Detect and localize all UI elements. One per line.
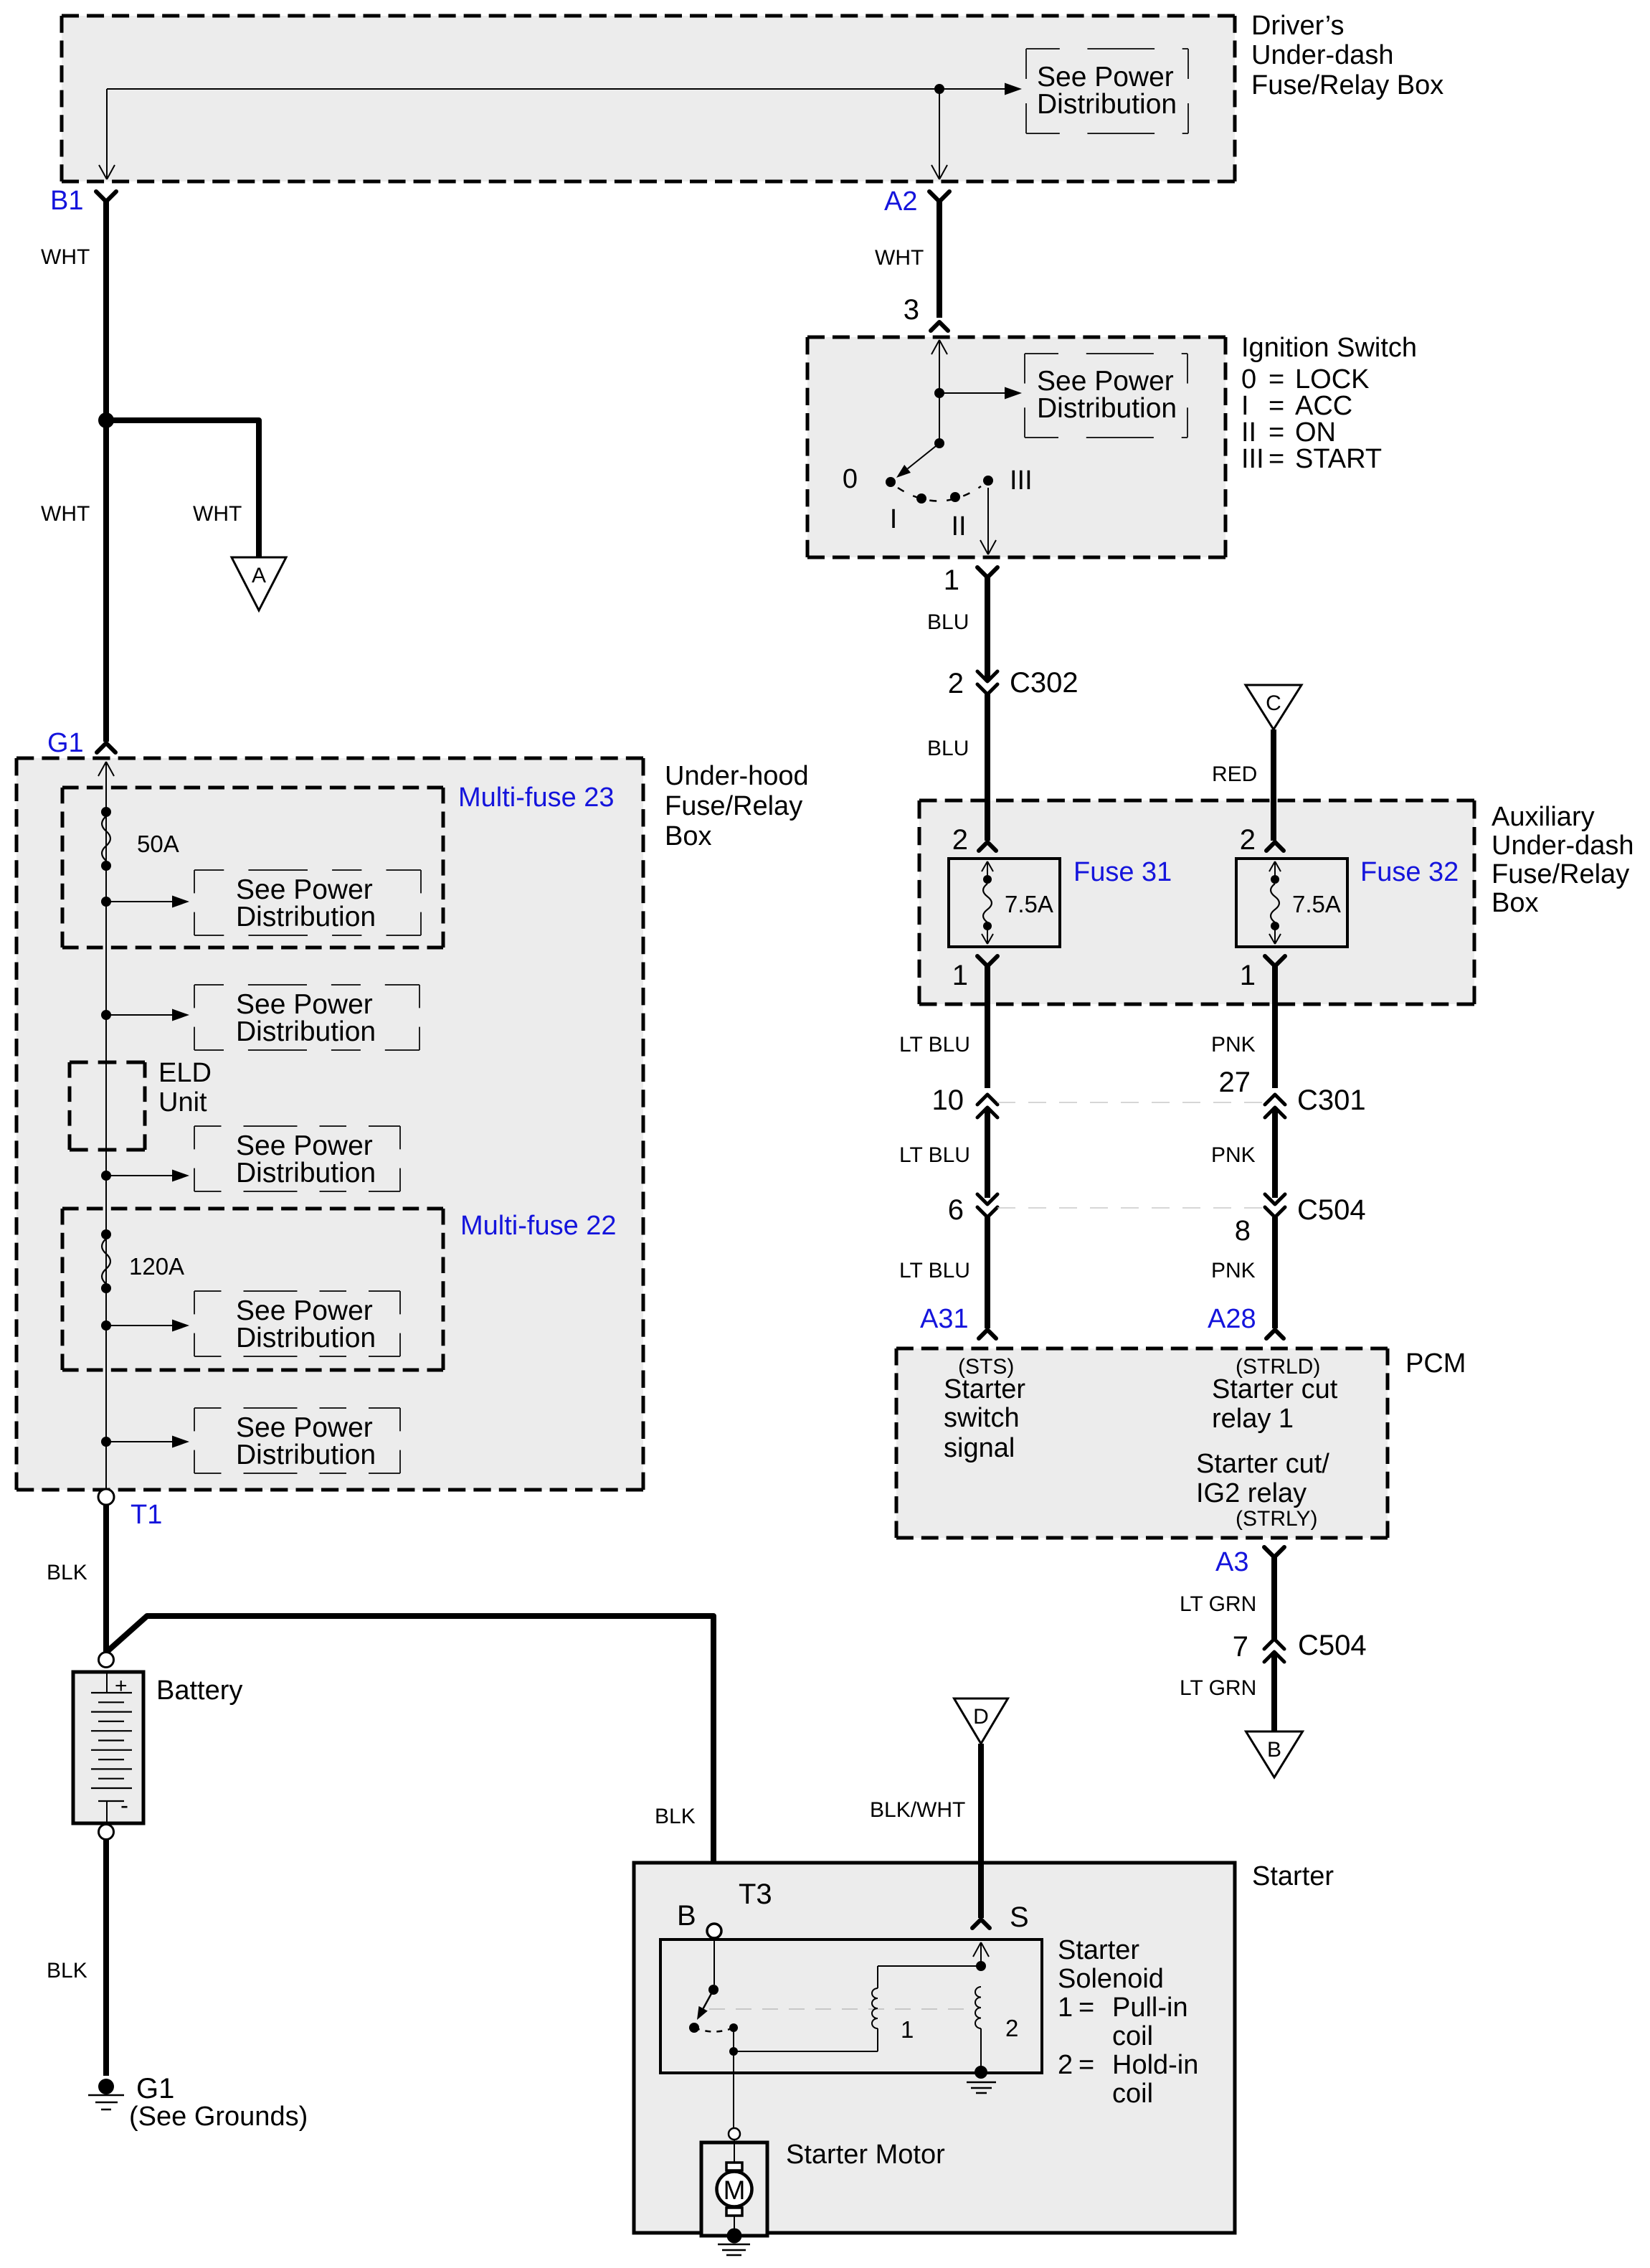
svg-text:A28: A28: [1208, 1304, 1256, 1334]
svg-text:C504: C504: [1297, 1194, 1366, 1226]
svg-text:Distribution: Distribution: [236, 902, 376, 932]
svg-text:I: I: [1241, 391, 1249, 421]
svg-text:Box: Box: [665, 821, 711, 851]
svg-text:ACC: ACC: [1295, 391, 1352, 421]
svg-text:8: 8: [1235, 1215, 1251, 1247]
svg-text:WHT: WHT: [875, 246, 924, 270]
svg-text:Fuse/Relay: Fuse/Relay: [1492, 859, 1629, 889]
svg-text:Distribution: Distribution: [236, 1158, 376, 1189]
svg-text:WHT: WHT: [41, 502, 90, 526]
svg-text:Fuse 31: Fuse 31: [1073, 857, 1172, 887]
svg-text:PNK: PNK: [1211, 1259, 1256, 1282]
svg-text:D: D: [973, 1705, 989, 1729]
svg-text:Solenoid: Solenoid: [1058, 1964, 1164, 1994]
svg-text:Under-dash: Under-dash: [1492, 831, 1634, 861]
svg-text:2: 2: [1240, 824, 1256, 856]
svg-text:Fuse/Relay Box: Fuse/Relay Box: [1251, 70, 1443, 100]
svg-text:A31: A31: [920, 1304, 969, 1334]
svg-text:=: =: [1269, 364, 1284, 394]
svg-text:II: II: [1241, 417, 1256, 448]
svg-text:III: III: [1241, 444, 1264, 474]
svg-text:coil: coil: [1112, 2079, 1153, 2109]
svg-text:PNK: PNK: [1211, 1033, 1256, 1057]
svg-text:Box: Box: [1492, 888, 1538, 918]
svg-text:C504: C504: [1298, 1630, 1367, 1661]
svg-text:I: I: [890, 504, 898, 534]
svg-text:LT BLU: LT BLU: [899, 1033, 970, 1057]
svg-text:T1: T1: [131, 1500, 162, 1530]
svg-text:1: 1: [952, 960, 968, 991]
svg-text:IG2 relay: IG2 relay: [1196, 1478, 1307, 1508]
svg-text:See Power: See Power: [236, 989, 373, 1020]
svg-text:Battery: Battery: [156, 1676, 242, 1706]
svg-text:=: =: [1269, 444, 1284, 474]
svg-text:1: 1: [1058, 1993, 1073, 2023]
svg-text:BLK/WHT: BLK/WHT: [870, 1798, 965, 1822]
svg-text:120A: 120A: [129, 1253, 184, 1280]
svg-text:See Power: See Power: [236, 874, 373, 905]
svg-text:ON: ON: [1295, 417, 1336, 448]
svg-text:signal: signal: [944, 1433, 1015, 1463]
svg-text:7: 7: [1233, 1631, 1248, 1663]
svg-text:II: II: [951, 511, 966, 542]
svg-text:0: 0: [843, 464, 858, 494]
svg-text:G1: G1: [47, 728, 84, 758]
svg-text:A3: A3: [1215, 1547, 1248, 1577]
svg-text:Starter cut: Starter cut: [1212, 1374, 1338, 1404]
svg-text:Multi-fuse 22: Multi-fuse 22: [460, 1211, 617, 1241]
svg-text:WHT: WHT: [193, 502, 242, 526]
svg-text:Distribution: Distribution: [236, 1323, 376, 1353]
svg-text:Ignition Switch: Ignition Switch: [1241, 333, 1417, 363]
svg-text:1: 1: [1240, 960, 1256, 991]
svg-text:7.5A: 7.5A: [1292, 891, 1341, 917]
svg-text:B: B: [1267, 1738, 1281, 1762]
svg-text:Starter: Starter: [1058, 1935, 1139, 1965]
svg-text:Starter: Starter: [944, 1374, 1025, 1404]
svg-text:=: =: [1078, 2050, 1094, 2080]
svg-text:S: S: [1010, 1901, 1029, 1933]
svg-text:1: 1: [944, 564, 959, 596]
svg-text:coil: coil: [1112, 2021, 1153, 2051]
svg-text:PNK: PNK: [1211, 1143, 1256, 1167]
svg-text:-: -: [120, 1792, 128, 1818]
svg-text:Pull-in: Pull-in: [1112, 1993, 1188, 2023]
svg-text:C302: C302: [1010, 667, 1078, 699]
svg-text:0: 0: [1241, 364, 1256, 394]
svg-text:=: =: [1078, 1993, 1094, 2023]
svg-text:Auxiliary: Auxiliary: [1492, 802, 1595, 832]
svg-text:START: START: [1295, 444, 1382, 474]
svg-text:BLK: BLK: [655, 1805, 696, 1828]
svg-text:50A: 50A: [137, 831, 179, 857]
svg-text:III: III: [1010, 466, 1033, 496]
svg-text:switch: switch: [944, 1403, 1020, 1433]
svg-text:2: 2: [1005, 2015, 1018, 2041]
svg-text:WHT: WHT: [41, 245, 90, 269]
svg-text:BLU: BLU: [927, 737, 969, 760]
svg-text:LT GRN: LT GRN: [1180, 1676, 1256, 1700]
svg-text:Starter Motor: Starter Motor: [786, 2140, 945, 2170]
svg-text:2: 2: [948, 668, 964, 699]
svg-text:LT GRN: LT GRN: [1180, 1592, 1256, 1616]
svg-text:Starter cut/: Starter cut/: [1196, 1449, 1329, 1479]
svg-text:See Power: See Power: [1037, 366, 1174, 397]
svg-text:C301: C301: [1297, 1085, 1366, 1116]
svg-text:Unit: Unit: [158, 1087, 207, 1118]
svg-text:Driver’s: Driver’s: [1251, 11, 1345, 41]
svg-text:7.5A: 7.5A: [1005, 891, 1053, 917]
svg-text:=: =: [1269, 391, 1284, 421]
svg-text:LOCK: LOCK: [1295, 364, 1369, 394]
svg-text:relay 1: relay 1: [1212, 1404, 1294, 1434]
svg-text:+: +: [115, 1674, 128, 1698]
svg-text:Under-hood: Under-hood: [665, 761, 809, 791]
svg-text:Fuse/Relay: Fuse/Relay: [665, 791, 802, 821]
svg-text:1: 1: [901, 2016, 914, 2043]
svg-text:See Power: See Power: [1037, 62, 1174, 93]
svg-text:LT BLU: LT BLU: [899, 1143, 970, 1167]
svg-text:BLK: BLK: [47, 1561, 87, 1584]
svg-text:6: 6: [948, 1194, 964, 1226]
svg-text:C: C: [1266, 691, 1281, 715]
svg-text:RED: RED: [1212, 762, 1257, 786]
svg-text:27: 27: [1219, 1067, 1251, 1098]
svg-text:A: A: [252, 564, 266, 587]
svg-text:See Power: See Power: [236, 1295, 373, 1326]
svg-text:(See Grounds): (See Grounds): [129, 2102, 308, 2132]
svg-text:Distribution: Distribution: [236, 1016, 376, 1047]
svg-text:LT BLU: LT BLU: [899, 1259, 970, 1282]
svg-text:Under-dash: Under-dash: [1251, 40, 1394, 70]
svg-text:G1: G1: [136, 2073, 174, 2104]
svg-text:Multi-fuse 23: Multi-fuse 23: [458, 783, 615, 813]
svg-text:See Power: See Power: [236, 1130, 373, 1161]
svg-text:Distribution: Distribution: [1037, 393, 1177, 424]
svg-text:2: 2: [952, 824, 968, 856]
svg-text:Distribution: Distribution: [236, 1440, 376, 1470]
svg-text:A2: A2: [884, 186, 917, 217]
svg-text:B1: B1: [50, 186, 83, 216]
svg-text:T3: T3: [739, 1879, 772, 1910]
svg-text:(STRLY): (STRLY): [1236, 1507, 1317, 1531]
svg-text:BLK: BLK: [47, 1959, 87, 1983]
svg-text:2: 2: [1058, 2050, 1073, 2080]
svg-text:M: M: [724, 2175, 746, 2205]
svg-text:See Power: See Power: [236, 1412, 373, 1443]
svg-text:B: B: [677, 1900, 696, 1932]
svg-text:Hold-in: Hold-in: [1112, 2050, 1198, 2080]
svg-text:10: 10: [932, 1085, 964, 1116]
svg-text:Starter: Starter: [1252, 1861, 1334, 1891]
svg-text:PCM: PCM: [1405, 1348, 1466, 1379]
svg-text:Distribution: Distribution: [1037, 89, 1177, 120]
svg-text:3: 3: [904, 294, 919, 326]
svg-text:ELD: ELD: [158, 1058, 212, 1088]
svg-text:BLU: BLU: [927, 610, 969, 634]
svg-text:Fuse 32: Fuse 32: [1360, 857, 1459, 887]
svg-text:=: =: [1269, 417, 1284, 448]
